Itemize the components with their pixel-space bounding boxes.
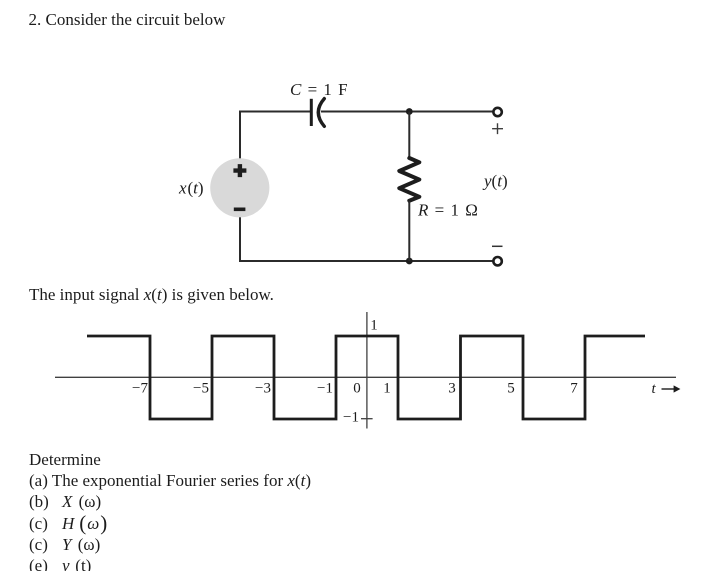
wire top rail node A to + terminal	[409, 111, 493, 113]
svg-text:3: 3	[448, 381, 456, 397]
source V1 x(t)	[210, 158, 269, 217]
svg-text:1: 1	[383, 381, 391, 397]
title text	[29, 10, 226, 29]
wire bottom rail node B to - terminal	[409, 260, 493, 262]
capacitor C1	[311, 99, 324, 127]
svg-text:−7: −7	[132, 381, 148, 397]
wire source bottom to bottom rail	[239, 217, 241, 261]
tick at -1 on vertical axis	[361, 418, 373, 420]
svg-text:−3: −3	[255, 381, 271, 397]
square wave x(t)	[87, 336, 645, 419]
svg-text:t: t	[652, 381, 657, 397]
wire resistor bottom lead	[408, 201, 410, 261]
svg-text:−1: −1	[343, 410, 359, 426]
plus sign under top terminal	[492, 123, 503, 134]
determine list text	[29, 449, 311, 571]
node A (top junction)	[406, 108, 413, 115]
svg-text:1: 1	[370, 318, 378, 334]
wire resistor top lead	[408, 112, 410, 159]
wire bottom rail from source to node B	[239, 260, 409, 262]
svg-text:−1: −1	[317, 381, 333, 397]
svg-text:0: 0	[353, 381, 361, 397]
svg-text:−5: −5	[193, 381, 209, 397]
vertical axis	[366, 312, 368, 429]
source plus polarity mark	[233, 164, 246, 177]
svg-text:7: 7	[570, 381, 578, 397]
output terminal + (top right)	[493, 108, 501, 116]
axis number labels	[132, 318, 578, 426]
node B (bottom junction)	[406, 258, 413, 265]
label t arrow	[652, 381, 681, 397]
wire top-left vertical from source to top rail	[239, 112, 241, 159]
minus sign above bottom terminal	[492, 245, 503, 247]
caption text	[29, 285, 274, 304]
wire top rail right of capacitor to node A	[321, 111, 409, 113]
output terminal - (bottom right)	[493, 257, 501, 265]
source minus polarity mark	[234, 208, 246, 212]
svg-text:5: 5	[507, 381, 515, 397]
wire top rail left of capacitor C	[239, 111, 310, 113]
t axis	[55, 376, 676, 378]
resistor R1 zigzag	[399, 158, 419, 201]
